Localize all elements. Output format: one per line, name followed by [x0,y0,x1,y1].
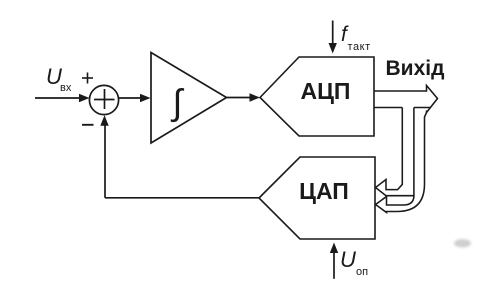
wire integrator to ADC [227,97,256,99]
integrator triangle U1 [151,53,227,144]
wire input to summing node [35,97,84,99]
svg-text:АЦП: АЦП [301,78,351,104]
faint scan smudge [454,239,471,247]
output hollow arrow from ADC [374,86,438,113]
minus sign label [82,124,94,126]
feedback hollow arrow A (inner, squared bend into DAC) [376,108,414,196]
label U_op [340,247,368,278]
arrowhead into ADC [250,93,261,101]
clock input wire f_takt [332,21,334,49]
reference input wire U_op [333,248,335,279]
feedback wire vertical up [104,124,106,198]
svg-text:вх: вх [60,82,72,94]
plus cross inside summing junction [94,99,115,101]
svg-text:Вихід: Вихід [386,57,445,80]
DAC block (TsAP) pentagon [259,157,375,239]
svg-text:ЦАП: ЦАП [299,178,349,204]
arrowhead into summing node bottom [100,115,108,126]
arrowhead into integrator [140,94,151,102]
arrowhead into summing node [79,94,90,102]
feedback hollow arrow B (outer, curved bend into DAC) [376,113,427,213]
label Uvx (input voltage) [46,64,72,94]
arrowhead clock down [329,43,337,54]
label f_takt [341,23,371,53]
svg-text:такт: такт [348,41,371,53]
ADC block (ATsP) pentagon [260,57,374,136]
wire summing node to integrator [119,97,145,99]
summing junction circle [89,85,118,114]
feedback wire DAC to summing node (horizontal) [105,197,259,199]
svg-text:U: U [340,247,356,272]
plus sign label [82,73,93,84]
arrowhead U_op up [330,243,338,254]
svg-text:оп: оп [356,266,368,278]
